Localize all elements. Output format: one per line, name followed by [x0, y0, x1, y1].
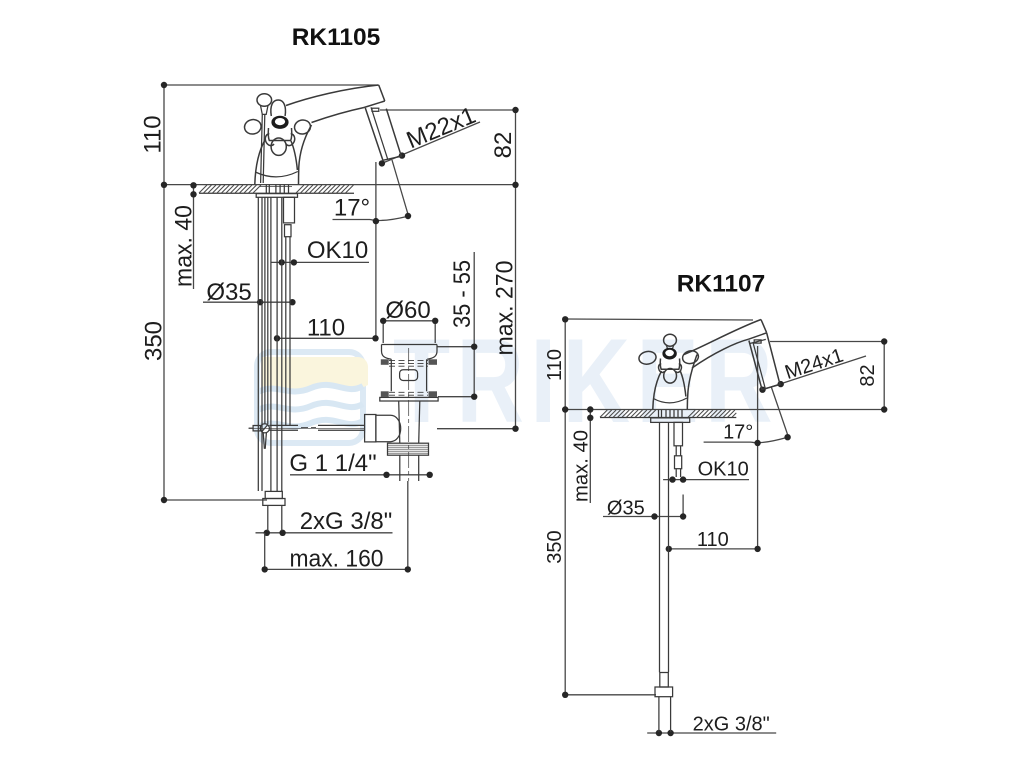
svg-text:82: 82: [490, 132, 517, 159]
svg-text:Ø35: Ø35: [206, 279, 251, 306]
svg-text:TRIKER: TRIKER: [393, 314, 779, 448]
svg-text:110: 110: [140, 115, 167, 153]
svg-text:350: 350: [544, 530, 566, 563]
svg-text:Ø60: Ø60: [385, 297, 430, 324]
svg-text:110: 110: [307, 315, 345, 342]
svg-text:max. 160: max. 160: [290, 546, 384, 573]
svg-text:max. 40: max. 40: [571, 430, 593, 502]
svg-text:OK10: OK10: [307, 237, 368, 264]
svg-text:17°: 17°: [334, 195, 370, 222]
svg-text:35 - 55: 35 - 55: [449, 260, 476, 328]
svg-text:110: 110: [544, 349, 566, 381]
svg-text:350: 350: [141, 321, 168, 361]
svg-text:OK10: OK10: [698, 459, 749, 481]
svg-text:17°: 17°: [723, 422, 753, 444]
svg-text:RK1105: RK1105: [292, 24, 381, 51]
svg-text:max. 270: max. 270: [492, 261, 519, 356]
svg-text:2xG 3/8": 2xG 3/8": [693, 714, 770, 736]
svg-text:max. 40: max. 40: [171, 205, 198, 287]
svg-text:82: 82: [857, 364, 879, 386]
svg-text:110: 110: [697, 529, 729, 551]
svg-text:Ø35: Ø35: [607, 498, 645, 520]
svg-text:RK1107: RK1107: [677, 271, 766, 298]
svg-text:G 1 1/4": G 1 1/4": [289, 450, 376, 477]
svg-text:2xG 3/8": 2xG 3/8": [300, 508, 393, 535]
